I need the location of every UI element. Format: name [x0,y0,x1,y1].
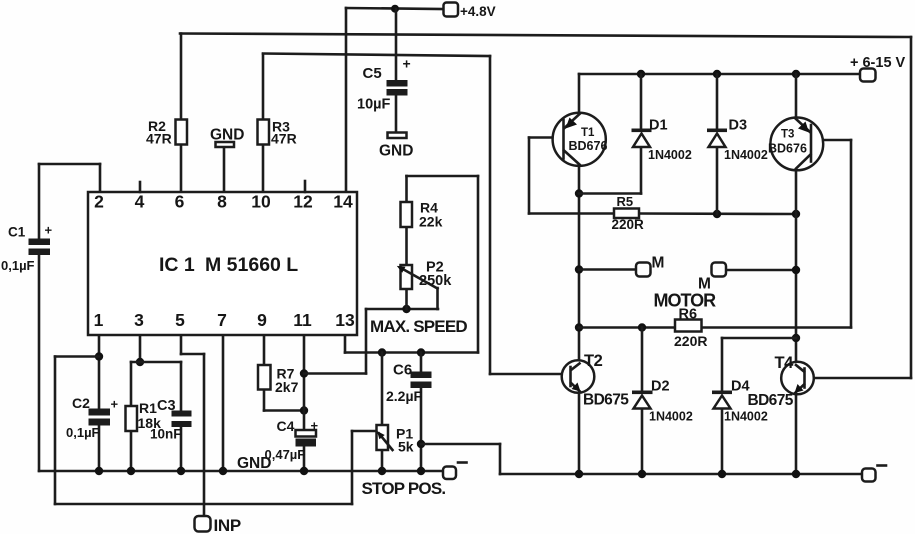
svg-text:GND: GND [210,127,244,144]
wire: R1 bottom lead [130,431,133,471]
wire: T4 base horizontal [812,377,911,380]
svg-text:INP: INP [214,516,241,534]
wire: C3 bottom lead [180,427,183,471]
wire: R3 bottom to IC pin 10 [262,144,265,192]
capacitor C1 (electrolytic) [1,223,53,274]
svg-text:250k: 250k [419,273,452,289]
node: bus junction P1 [378,467,386,475]
wire: D1 bottom lead [640,146,643,194]
terminal minus (right) [862,466,886,482]
wire: D1 top lead [640,74,643,129]
wire: pin 5 jog to INP column [181,353,204,356]
wire: pin 13 rail y352 [345,351,478,354]
svg-text:220R: 220R [612,217,645,232]
wire: R1/C3 top rail y362 [131,361,181,364]
wire: C6 top lead [420,353,423,372]
svg-text:MAX. SPEED: MAX. SPEED [370,317,467,336]
wire: IC pin 5 stub down [180,335,183,354]
wire: T1 collector column down to T2 [578,165,581,361]
wire: C6 bottom lead [420,388,423,471]
node: junction C6 lead with feedback-to-right wire [417,440,425,448]
wire: R7 bottom lead [263,390,266,411]
node: junction D4 branch with T3/T4 column [792,334,800,342]
svg-text:T3: T3 [781,129,794,141]
wire: long top wire from R2 top across page to right riser [180,34,911,38]
wire: C3 top lead [180,362,183,410]
wire: R6 rail left segment [579,326,675,329]
transistor T2 BD675 [562,352,630,409]
svg-text:10: 10 [251,192,271,212]
wire: C2 bottom lead to bus [98,424,101,471]
capacitor C6 [386,362,432,405]
svg-text:+: + [403,56,411,72]
svg-text:D1: D1 [649,118,668,134]
wire: D3 bottom lead [716,146,719,214]
svg-text:22k: 22k [419,214,443,230]
svg-text:T4: T4 [775,354,795,372]
svg-text:220R: 220R [674,333,707,349]
wire: D4 branch horizontal [722,337,796,340]
svg-text:6: 6 [175,192,185,212]
wire: IC pin 2 stub up [99,164,102,192]
node: junction D3 with supply rail [713,70,721,78]
wire: T3 base horizontal [823,139,851,142]
svg-text:GND: GND [379,143,413,160]
svg-text:D2: D2 [651,379,670,395]
svg-text:0,1µF: 0,1µF [1,258,35,273]
svg-text:8: 8 [217,192,227,212]
wire: T3 emitter top lead [795,74,798,118]
svg-text:13: 13 [335,310,355,330]
svg-text:C3: C3 [157,398,176,414]
node: junction pin1/C2 with feedback rail [95,352,103,360]
wire: R3 top riser to y54 wire [262,54,265,120]
svg-text:1N4002: 1N4002 [724,410,768,424]
wire: P1 wiper horizontal [352,430,378,433]
wire: C5 top lead [395,9,398,80]
svg-text:+: + [45,223,53,238]
wire: P2 bottom rail y309 [366,308,438,311]
svg-text:1N4002: 1N4002 [649,410,693,424]
node: bus junction pin1/C2 [95,467,103,475]
svg-text:5k: 5k [398,439,414,455]
motor terminal M2 [698,263,726,293]
svg-text:C4: C4 [277,418,295,434]
svg-text:BD675: BD675 [748,392,794,409]
wire: link wire riser [499,444,502,474]
diode D3 1N4002 [707,118,768,163]
transistor T4 BD675 [748,354,814,409]
svg-text:C6: C6 [393,362,412,379]
svg-text:14: 14 [333,192,353,212]
wire: R2 top riser [180,34,183,121]
svg-text:5: 5 [175,310,185,330]
node: bottom rail junction D2 [638,470,646,478]
svg-text:R6: R6 [679,307,698,323]
ground symbol at pin 8 [210,127,244,148]
wire: T3 base riser down to R6 rail [850,140,853,328]
resistor R5 [612,194,645,232]
wire: +6-15V supply rail [579,73,861,76]
wire: C4 bottom lead to bus [303,446,306,471]
wire: C1 bottom lead down to ground bus [38,255,41,471]
node: junction D2 top with R6 rail [638,323,646,331]
node: junction pin 11 with P2 return rail [300,369,308,377]
IC1 M51660L body [88,192,357,335]
node: bottom rail junction T2 emitter [575,470,583,478]
wire: right section bottom rail [500,473,863,476]
wire: pin 2 to C1 horizontal [39,163,100,166]
wire: IC pin 3 lead [139,335,142,362]
resistor R4 [401,202,413,227]
svg-text:11: 11 [293,310,312,330]
wire: P2 to R4 lead [405,227,408,265]
svg-text:C1: C1 [8,225,26,240]
node: junction D3 bottom with R5 line [713,210,721,218]
wire: link wire to right section horizontal [421,443,500,446]
wire: P1 bottom lead [381,450,384,471]
wire: R5 line right segment to T3 column [639,212,796,215]
wire: T1 base horizontal [529,136,554,139]
pin 12 tick [304,181,307,192]
resistor R3 [258,120,270,145]
node: junction R7 with pin 11 column [300,406,308,414]
node: junction P2 bottom lead with rail [402,305,410,313]
node: junction C6 top with pin 13 rail [417,348,425,356]
svg-text:BD675: BD675 [583,392,629,409]
transistor T3 BD676 [768,117,823,170]
wire: motor terminal M1 lead [579,268,636,271]
diode D4 1N4002 [712,379,768,424]
wire: T4 emitter lead to bottom rail [795,394,798,474]
wire: P2 bottom lead [405,289,408,309]
node: junction D1 with supply rail [637,70,645,78]
wire: D2 bottom lead [641,407,644,474]
svg-text:10nF: 10nF [150,427,182,442]
wire: right-edge riser down to T4 base [910,37,913,378]
wire: P2 wiper drop [436,288,439,309]
svg-text:R5: R5 [617,194,634,209]
node: bus junction R1 [127,467,135,475]
wire: T2 base horizontal [490,373,563,376]
resistor R1 [126,406,138,431]
wire: R7 jog to pin 11 column [264,409,304,412]
wire: D1 return horizontal [579,192,641,195]
svg-text:4: 4 [135,192,145,212]
wire: +4.8V supply wire to terminal [346,8,444,9]
wire: R1 top lead [130,362,133,406]
svg-text:9: 9 [257,310,267,330]
svg-text:M 51660 L: M 51660 L [205,254,298,276]
wire: IC pin 11 lead down to C4 [303,335,306,430]
svg-text:2.2µF: 2.2µF [386,388,423,404]
diode D1 1N4002 [632,118,692,163]
node: junction M2 wire with T3 column [792,266,800,274]
diode D2 1N4002 [632,379,693,424]
resistor R2 [176,120,188,145]
wire: D2 top lead [641,328,644,392]
wire: x490 riser down to T2 base level [489,56,492,374]
svg-text:+: + [311,418,319,433]
wire: IC pin 13 stub [344,335,347,353]
svg-text:1N4002: 1N4002 [724,148,768,162]
wire: IC pin 7 lead to bus [222,335,225,471]
wire: feedback rail y356 [55,355,99,358]
wire: T1 base drop to R5 line [528,138,531,214]
svg-text:GND: GND [237,455,271,472]
wire: ground bus [39,470,444,473]
wire: IC pin 8 up to GND bar [223,147,226,192]
svg-text:M: M [652,255,665,272]
wire: P2 return riser x366 [365,309,368,374]
svg-text:47R: 47R [146,131,172,147]
wire: feedback riser x352 up to wiper line [351,431,354,504]
wire: R5 line left segment [529,212,614,215]
node: junction P1 top with pin 13 rail [378,348,386,356]
svg-text:2: 2 [94,192,104,212]
terminal minus (left) [443,463,467,480]
node: bus junction pin 7 [219,467,227,475]
wire: T1 emitter top lead [578,74,581,114]
node: junction of C5 with +4.8V wire [391,5,399,13]
wire: motor terminal M2 lead [726,269,796,272]
resistor R7 [258,365,271,390]
wire: R2 bottom to IC pin 6 [180,144,183,192]
transistor T1 BD676 [553,113,608,166]
svg-text:1: 1 [94,310,104,330]
wire: INP drop line [203,354,206,516]
svg-text:12: 12 [293,192,313,212]
wire: T2 emitter lead to bottom rail [578,392,581,474]
pin 4 tick [139,182,142,192]
wire: IC pin 1 lead to C2 [98,335,101,409]
svg-text:D3: D3 [729,118,748,134]
svg-text:3: 3 [134,310,144,330]
wire: feedback bottom run y504 [55,503,352,506]
node: junction pin 3 with R1/C3 rail [136,358,144,366]
wire: feedback left riser x55 [54,357,57,505]
potentiometer P2 [397,260,452,290]
svg-text:47R: 47R [271,131,297,147]
capacitor C2 (electrolytic) [66,395,119,440]
svg-text:T1: T1 [581,127,595,139]
svg-text:STOP POS.: STOP POS. [362,479,446,498]
svg-text:+4.8V: +4.8V [460,4,496,19]
svg-text:C2: C2 [72,395,90,411]
wire: horizontal wire y54 from R3 to x490 riser [263,54,490,57]
svg-text:R1: R1 [139,400,157,416]
wire: D4 top lead [721,338,724,391]
resistor R6 [674,307,707,350]
node: bottom rail junction D4 [718,470,726,478]
wire: P2 return rail y373 [304,372,366,375]
wire: T3 collector column down to T4 [795,170,798,362]
capacitor C3 [150,398,192,442]
svg-text:1N4002: 1N4002 [648,148,692,162]
svg-text:BD676: BD676 [569,139,608,153]
ground symbol at C5 [379,133,413,160]
capacitor C4 (electrolytic, polarized) [265,418,319,462]
node: junction D1 return with T1 column [575,189,583,197]
svg-text:+: + [111,397,119,412]
terminal +6-15V [850,55,906,82]
wire: D3 top lead [716,74,719,129]
node: bus junction C6 [417,467,425,475]
node: junction R5 line with T3 column [792,210,800,218]
node: junction M1 wire with T1 column [575,265,583,273]
svg-text:7: 7 [217,310,227,330]
node: bus junction C3 [177,467,185,475]
wire: max-speed loop right edge [477,176,480,353]
wire: max-speed loop top edge [407,175,479,178]
capacitor C5 (electrolytic) [357,56,411,113]
node: bus junction C4 [300,467,308,475]
svg-text:10µF: 10µF [357,97,390,113]
wire: D4 bottom lead [721,407,724,474]
wire: C5 bottom lead to GND bar [395,95,398,133]
node: junction T3 with supply rail [792,70,800,78]
wire: R6 rail right segment [701,326,851,329]
svg-text:BD676: BD676 [768,142,807,156]
wire: IC pin 14 riser to +4.8V wire [345,8,348,192]
node: bottom rail junction T4 emitter [792,470,800,478]
svg-text:2k7: 2k7 [275,379,299,395]
wire: R4 top lead [405,176,408,202]
wire: P1 top lead [381,353,384,426]
svg-text:T2: T2 [584,352,603,370]
node: junction R6 rail with T1 column [575,323,583,331]
terminal INP [195,516,241,534]
svg-text:+ 6-15 V: + 6-15 V [850,55,906,71]
motor terminal M1 [636,255,664,277]
wire: C1 top lead [38,164,41,239]
potentiometer P1 [377,425,414,455]
terminal +4.8V [444,3,496,20]
svg-text:IC 1: IC 1 [159,254,195,276]
svg-text:C5: C5 [363,65,382,82]
svg-text:0,1µF: 0,1µF [66,425,100,440]
wire: IC pin 9 lead to R7 [263,335,266,365]
